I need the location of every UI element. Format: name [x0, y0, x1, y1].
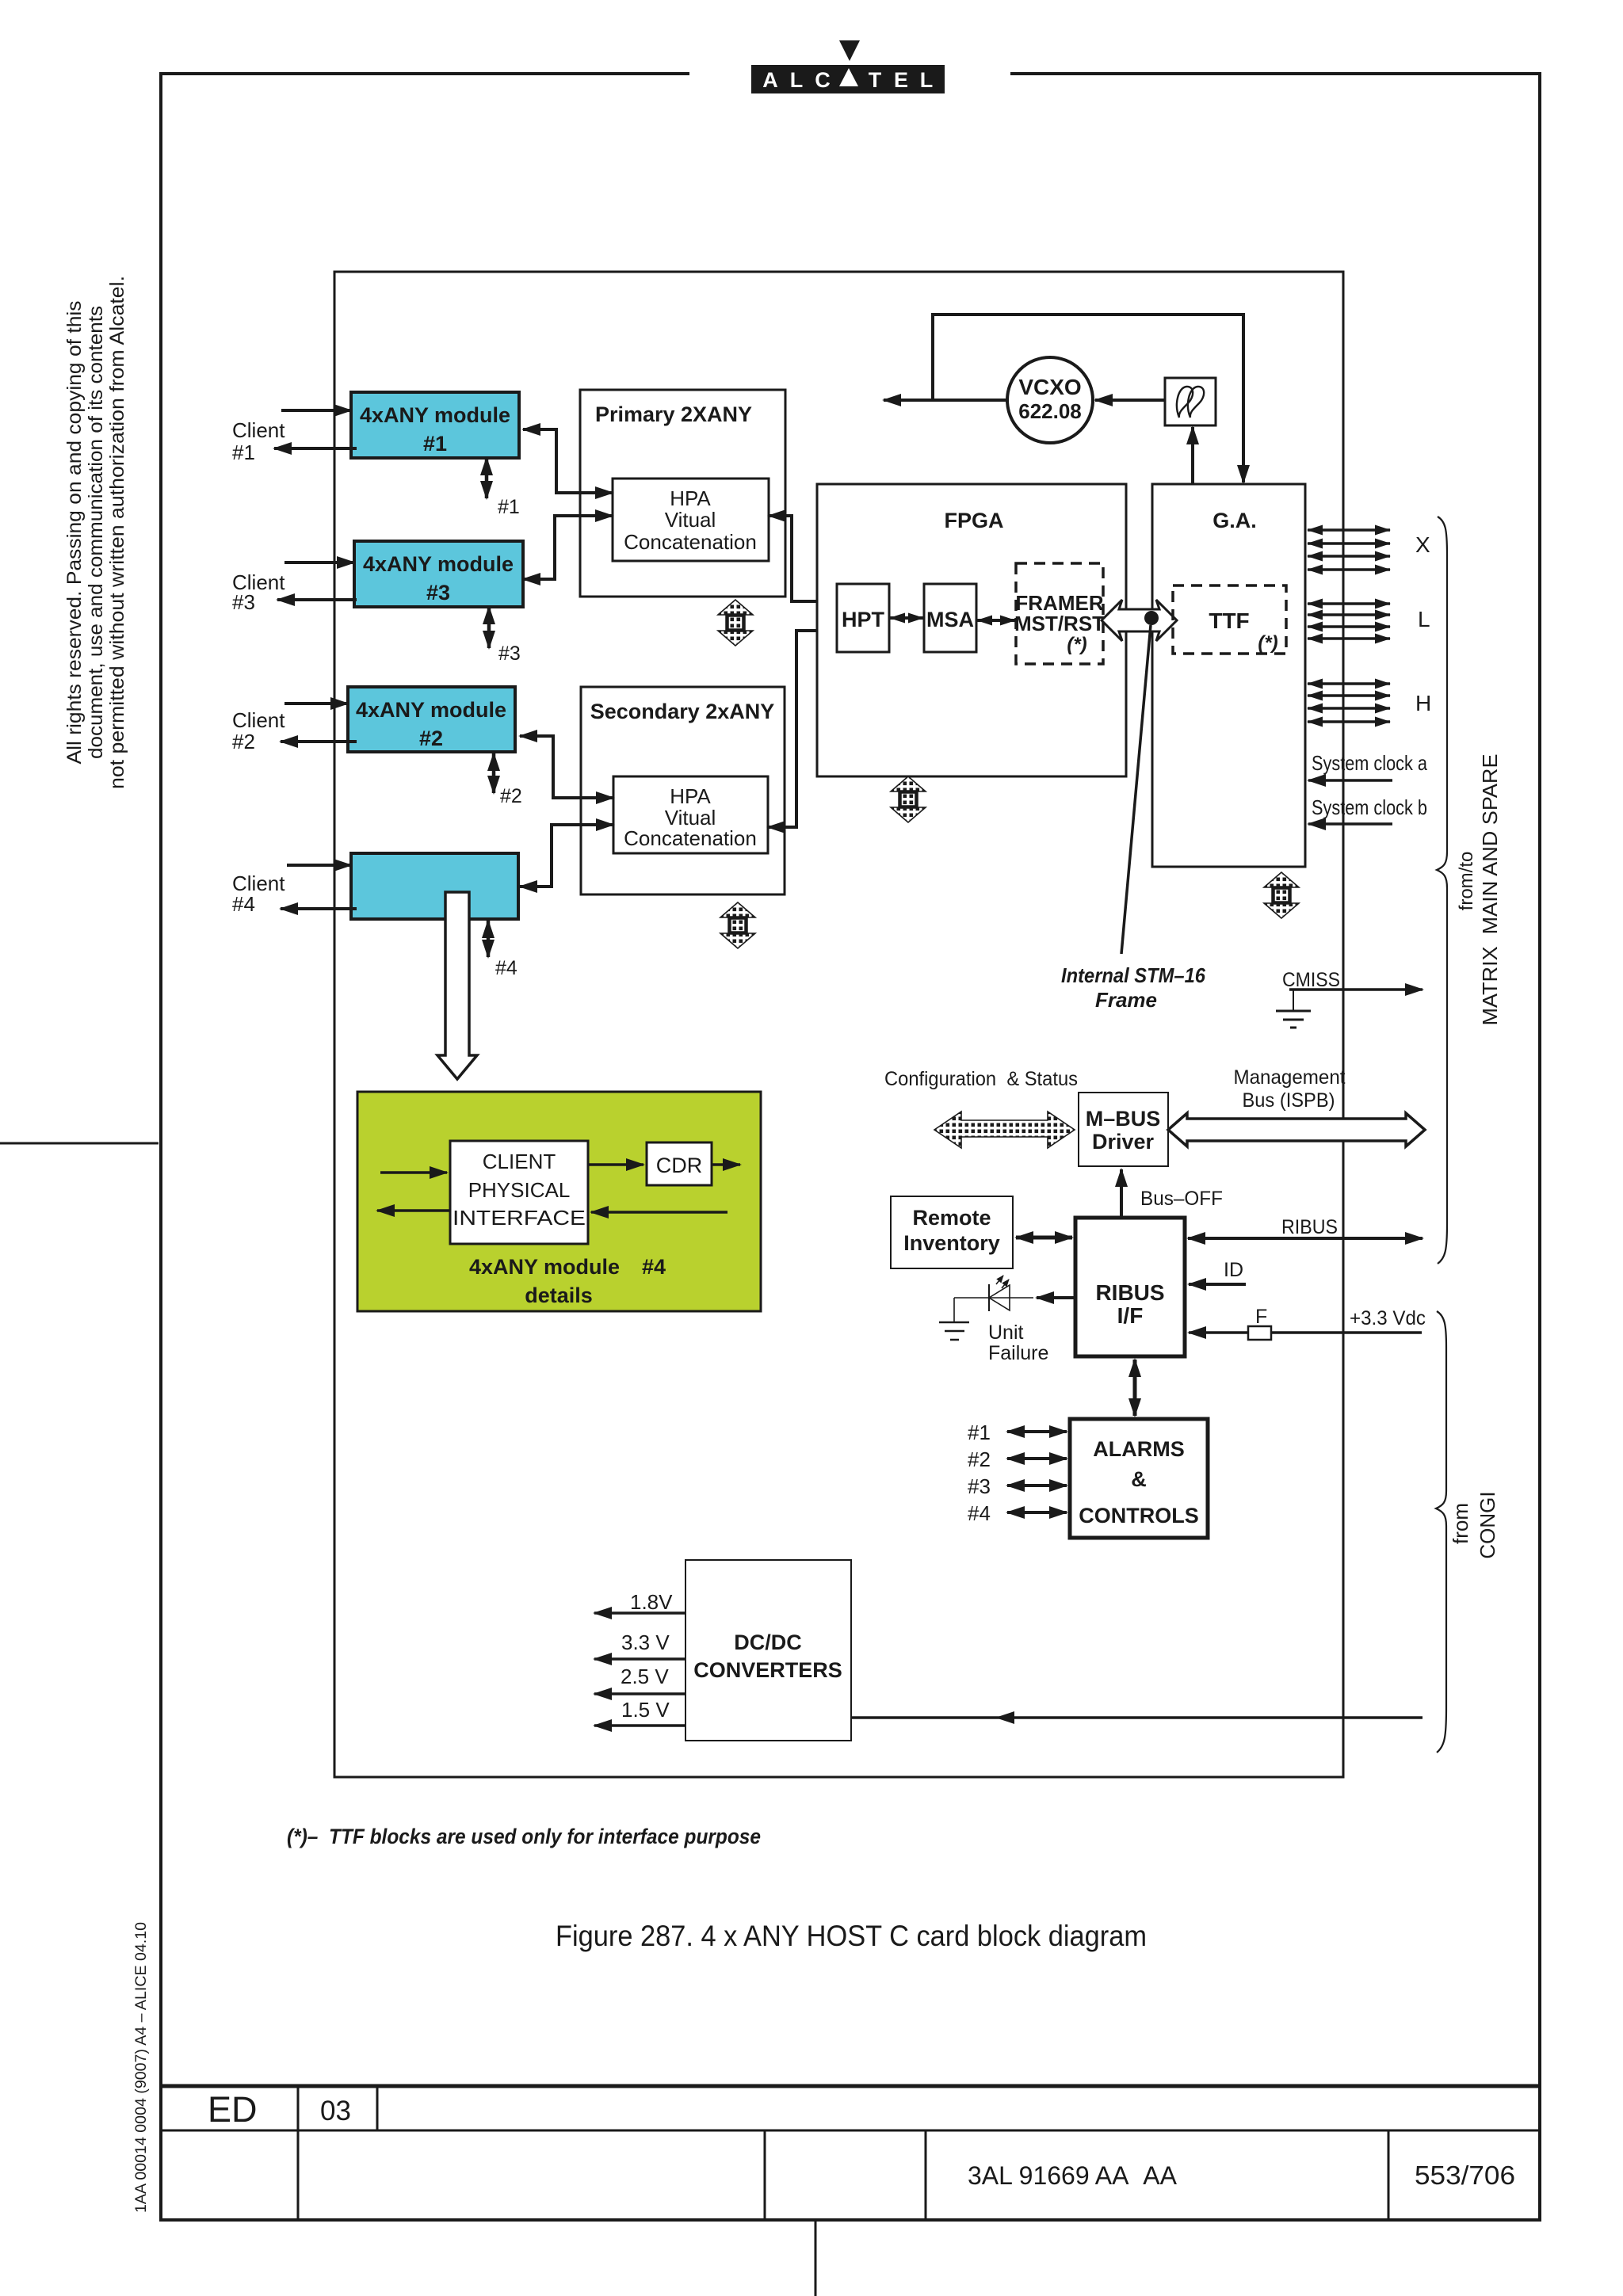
bottom fold mark	[815, 2220, 817, 2296]
ground CMISS	[1276, 990, 1311, 1028]
block Secondary 2xANY	[581, 687, 785, 894]
block 4xANY module #1	[351, 392, 519, 458]
svg-text:4xANY module: 4xANY module	[363, 552, 514, 576]
svg-text:Driver: Driver	[1092, 1130, 1155, 1154]
wire ID	[1189, 1283, 1246, 1286]
svg-text:MSA: MSA	[926, 608, 974, 631]
svg-text:#3: #3	[968, 1474, 991, 1498]
svg-text:Concatenation: Concatenation	[624, 826, 757, 850]
port arrow #4	[487, 921, 491, 957]
svg-text:RIBUS: RIBUS	[1095, 1280, 1164, 1305]
svg-text:from: from	[1449, 1503, 1472, 1544]
wire MSA-FRAMER	[977, 619, 1015, 622]
wire CPI to CDR	[588, 1163, 643, 1166]
block 4xANY module #3	[354, 541, 523, 607]
svg-text:#3: #3	[232, 590, 255, 614]
wire CPI out left	[377, 1209, 450, 1212]
svg-text:Inventory: Inventory	[903, 1231, 1000, 1255]
svg-text:Figure 287. 4 x ANY HOST C car: Figure 287. 4 x ANY HOST C card block di…	[556, 1920, 1147, 1952]
svg-text:#4: #4	[968, 1501, 991, 1525]
svg-text:H: H	[1415, 691, 1431, 715]
wire client #4 in	[287, 864, 351, 867]
svg-text:Bus–OFF: Bus–OFF	[1140, 1188, 1223, 1210]
connector symbol below primary	[718, 600, 753, 646]
oscillator VCXO 622.08	[1007, 357, 1093, 443]
connector symbol below secondary	[720, 902, 755, 948]
svg-text:A: A	[762, 68, 778, 92]
svg-text:Unit: Unit	[988, 1322, 1024, 1344]
block HPA Vitual Concatenation (primary)	[613, 479, 769, 561]
pointer line to label	[1121, 625, 1151, 954]
bus config status dotted	[934, 1112, 1075, 1148]
bus H group	[1308, 684, 1390, 722]
block MSA	[924, 584, 976, 652]
block CLIENT PHYSICAL INTERFACE	[450, 1141, 588, 1244]
wire CDR out	[712, 1163, 740, 1166]
svg-text:ID: ID	[1224, 1259, 1243, 1281]
svg-text:#3: #3	[426, 581, 450, 605]
block 4xANY module #4 details (green)	[357, 1092, 761, 1311]
svg-text:#2: #2	[232, 730, 255, 753]
block HPT	[837, 584, 889, 652]
svg-text:#4: #4	[642, 1255, 666, 1279]
svg-text:4xANY module: 4xANY module	[360, 403, 510, 427]
svg-text:All rights reserved. Passing o: All rights reserved. Passing on and copy…	[63, 301, 86, 765]
svg-text:Bus (ISPB): Bus (ISPB)	[1243, 1089, 1335, 1112]
svg-text:L: L	[920, 68, 934, 92]
big arrow module #4 details	[437, 892, 477, 1079]
block FPGA	[817, 484, 1126, 776]
svg-text:FPGA: FPGA	[944, 509, 1003, 532]
Alcatel logo triangle	[839, 40, 860, 61]
block 4xANY module #2	[348, 687, 515, 752]
svg-text:4xANY module: 4xANY module	[356, 698, 506, 722]
block TTF	[1173, 585, 1286, 654]
wire module #3 to primary HPA	[523, 516, 613, 579]
bus management ISPB	[1168, 1113, 1425, 1146]
wire client #1 in	[281, 409, 351, 412]
svg-text:+3.3 Vdc: +3.3 Vdc	[1350, 1307, 1426, 1329]
bus X group	[1308, 530, 1390, 570]
svg-text:CONGI: CONGI	[1476, 1491, 1499, 1558]
brace congi	[1436, 1311, 1446, 1753]
svg-text:I/F: I/F	[1117, 1303, 1144, 1328]
inner diagram box	[334, 272, 1343, 1777]
svg-text:#4: #4	[495, 957, 517, 979]
svg-text:RIBUS: RIBUS	[1281, 1216, 1338, 1238]
wire primary HPA to HPT	[769, 516, 837, 601]
svg-text:Failure: Failure	[988, 1342, 1048, 1364]
wire RIBUS-ALARMS	[1133, 1360, 1137, 1416]
wire secondary HPA to HPT	[768, 631, 837, 827]
svg-text:HPA: HPA	[670, 486, 711, 510]
svg-text:Vitual: Vitual	[665, 508, 716, 532]
svg-text:INTERFACE: INTERFACE	[453, 1206, 586, 1230]
wire +3.3Vdc with fuse	[1189, 1331, 1422, 1334]
title block verticals row2	[764, 2130, 766, 2220]
svg-text:X: X	[1415, 532, 1430, 557]
svg-text:L: L	[1418, 607, 1430, 631]
wire power input	[997, 1716, 1423, 1719]
block 4xANY module #4 (unlabelled)	[351, 853, 518, 919]
svg-text:ALARMS: ALARMS	[1093, 1437, 1185, 1461]
svg-text:Primary 2XANY: Primary 2XANY	[595, 402, 752, 426]
wire client #3 in	[285, 561, 354, 564]
svg-text:PHYSICAL: PHYSICAL	[468, 1178, 571, 1202]
wire system clock a	[1308, 779, 1392, 782]
wire client #2 out	[281, 740, 357, 743]
svg-text:from/to: from/to	[1456, 852, 1477, 911]
svg-text:&: &	[1131, 1467, 1147, 1491]
svg-text:TTF: TTF	[1209, 608, 1249, 633]
brace matrix	[1437, 517, 1447, 1264]
svg-text:(*)– TTF blocks are used only: (*)– TTF blocks are used only for interf…	[287, 1825, 761, 1848]
svg-text:Configuration & Status: Configuration & Status	[884, 1068, 1078, 1090]
wire module #2 to secondary HPA	[520, 736, 613, 798]
Alcatel logo bar	[751, 65, 945, 93]
svg-text:Client: Client	[232, 418, 285, 442]
node internal STM-16	[1144, 611, 1159, 625]
block CDR	[647, 1142, 712, 1185]
svg-text:4xANY module: 4xANY module	[469, 1255, 620, 1279]
wire remote inventory - RIBUS	[1016, 1236, 1072, 1240]
connector symbol below FPGA	[891, 776, 926, 822]
block FRAMER MST/RST	[1014, 563, 1105, 664]
svg-text:3AL 91669 AA AA: 3AL 91669 AA AA	[968, 2161, 1178, 2190]
svg-text:3.3 V: 3.3 V	[621, 1630, 670, 1654]
left fold mark	[0, 1142, 158, 1145]
svg-text:2.5 V: 2.5 V	[621, 1665, 669, 1688]
svg-text:DC/DC: DC/DC	[734, 1630, 802, 1654]
svg-text:L: L	[790, 68, 804, 92]
wire Bus-OFF	[1120, 1169, 1123, 1218]
svg-text:System clock b: System clock b	[1312, 795, 1427, 819]
svg-text:HPT: HPT	[842, 608, 885, 631]
svg-text:553/706: 553/706	[1415, 2161, 1515, 2190]
title block verticals row1	[297, 2086, 300, 2220]
svg-text:G.A.: G.A.	[1212, 509, 1257, 532]
wire client #4 out	[281, 907, 357, 910]
block ALARMS & CONTROLS	[1070, 1419, 1208, 1538]
block M-BUS Driver	[1079, 1093, 1168, 1166]
wire client #3 out	[277, 598, 357, 601]
wire filter to VCXO	[1095, 399, 1165, 402]
block HPA Vitual Concatenation (secondary)	[613, 776, 768, 853]
connector symbol below GA	[1264, 872, 1299, 918]
wire RIBUS	[1188, 1237, 1423, 1240]
wire module #1 to primary HPA	[523, 429, 613, 493]
wire CPI in right	[591, 1211, 727, 1214]
svg-text:1.5 V: 1.5 V	[621, 1698, 670, 1722]
svg-text:(*): (*)	[1067, 634, 1086, 655]
outer drawing frame	[161, 74, 1540, 2220]
svg-text:Frame: Frame	[1095, 988, 1157, 1012]
svg-text:HPA: HPA	[670, 784, 711, 808]
svg-text:F: F	[1255, 1306, 1267, 1328]
title block mid line	[161, 2130, 1540, 2132]
rotated copyright note	[63, 276, 128, 789]
port arrow #1	[485, 458, 489, 498]
svg-text:CONVERTERS: CONVERTERS	[693, 1658, 842, 1682]
svg-text:M–BUS: M–BUS	[1086, 1107, 1161, 1131]
svg-text:#1: #1	[968, 1421, 991, 1444]
block RIBUS I/F	[1075, 1218, 1185, 1356]
svg-text:VCXO: VCXO	[1018, 375, 1081, 399]
svg-text:System clock a: System clock a	[1312, 751, 1427, 775]
svg-text:not permitted without written: not permitted without written authorizat…	[106, 276, 128, 789]
wire feedback loop top	[933, 315, 1243, 482]
filter box	[1165, 378, 1216, 425]
svg-text:CDR: CDR	[656, 1154, 703, 1177]
wire CMISS	[1289, 988, 1423, 991]
svg-text:#1: #1	[423, 432, 447, 456]
title block top line	[161, 2084, 1540, 2088]
ground unit failure	[939, 1298, 969, 1340]
svg-text:#2: #2	[500, 785, 522, 807]
svg-text:Concatenation: Concatenation	[624, 530, 757, 554]
svg-text:MATRIX MAIN AND SPARE: MATRIX MAIN AND SPARE	[1478, 754, 1502, 1026]
svg-text:CONTROLS: CONTROLS	[1079, 1504, 1199, 1527]
wire system clock b	[1308, 822, 1392, 826]
svg-text:Remote: Remote	[912, 1206, 991, 1230]
svg-text:document, use and communicatio: document, use and communication of its c…	[85, 306, 107, 759]
LED unit failure	[954, 1276, 1033, 1311]
fuse F	[1248, 1326, 1271, 1340]
wire VCXO out	[884, 399, 1007, 402]
frame gap for logo	[689, 69, 1010, 78]
wire module #4 to secondary HPA	[520, 825, 613, 887]
svg-text:CLIENT: CLIENT	[483, 1150, 556, 1173]
Alcatel logo mid triangle	[839, 68, 858, 86]
bus L group	[1308, 604, 1390, 639]
wire HPT-MSA	[890, 616, 923, 620]
svg-text:CMISS: CMISS	[1282, 969, 1340, 991]
block DC/DC CONVERTERS	[685, 1560, 851, 1741]
wire GA to filter	[1191, 427, 1194, 484]
svg-text:03: 03	[320, 2096, 351, 2126]
port arrow #3	[487, 607, 491, 648]
svg-text:Management: Management	[1234, 1066, 1346, 1089]
svg-text:#1: #1	[498, 496, 520, 518]
bus FRAMER-TTF	[1102, 600, 1177, 641]
svg-text:#4: #4	[232, 892, 255, 916]
svg-text:#1: #1	[232, 441, 255, 464]
svg-text:#3: #3	[498, 643, 521, 665]
wire unit failure	[1037, 1296, 1075, 1299]
svg-text:622.08: 622.08	[1018, 399, 1082, 423]
Alcatel logo letters	[762, 68, 933, 92]
svg-text:ED: ED	[208, 2089, 258, 2130]
block Primary 2XANY	[580, 390, 785, 597]
svg-text:C: C	[815, 68, 831, 92]
wire CPI in left	[380, 1171, 447, 1174]
svg-text:Secondary 2xANY: Secondary 2xANY	[590, 700, 775, 723]
wire client #2 in	[285, 702, 348, 705]
wire client #1 out	[274, 447, 357, 450]
svg-text:(*): (*)	[1258, 632, 1277, 654]
svg-text:#2: #2	[968, 1447, 991, 1471]
svg-text:1AA 00014 0004 (9007) A4 – ALI: 1AA 00014 0004 (9007) A4 – ALICE 04.10	[132, 1922, 150, 2213]
svg-text:MST/RST: MST/RST	[1014, 612, 1105, 635]
block G.A.	[1152, 484, 1305, 867]
svg-text:#2: #2	[419, 727, 443, 750]
svg-text:Internal STM–16: Internal STM–16	[1061, 963, 1205, 987]
svg-text:Client: Client	[232, 708, 285, 732]
svg-text:T: T	[869, 68, 882, 92]
svg-text:1.8V: 1.8V	[630, 1590, 673, 1614]
svg-text:E: E	[894, 68, 908, 92]
svg-text:details: details	[525, 1283, 593, 1307]
port arrow #2	[492, 753, 496, 793]
block Remote Inventory	[891, 1196, 1013, 1268]
